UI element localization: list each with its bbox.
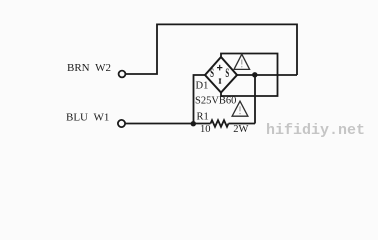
svg-text:10: 10 — [200, 124, 211, 135]
wire bridge left ~ down to node A — [194, 75, 206, 124]
svg-text:BRN W2: BRN W2 — [67, 62, 111, 74]
bridge plus mark — [217, 65, 222, 71]
bridge minus mark — [219, 79, 221, 84]
label BLU W1 — [66, 112, 109, 124]
svg-text:S: S — [225, 67, 229, 81]
wire BLU terminal to node A — [125, 123, 210, 125]
label S25VB60 — [195, 96, 236, 107]
svg-text:2W: 2W — [233, 124, 248, 135]
watermark hifidiy.net — [266, 122, 365, 139]
node junction dot right — [252, 72, 257, 77]
wire BRN terminal to top loop — [126, 24, 297, 75]
svg-text:D1: D1 — [196, 81, 209, 92]
bridge rectifier D1 body — [205, 57, 237, 93]
wire bridge right ~ to outer loop — [237, 74, 297, 76]
warning triangle near R1 — [232, 101, 248, 116]
svg-text:BLU W1: BLU W1 — [66, 112, 109, 124]
label D1 — [196, 81, 209, 92]
label 2W — [233, 124, 248, 135]
svg-text:S: S — [210, 67, 214, 81]
label BRN W2 — [67, 62, 111, 74]
bridge left ac mark — [210, 67, 214, 81]
svg-text:S25VB60: S25VB60 — [195, 96, 236, 107]
bridge right ac mark — [225, 67, 229, 81]
svg-text:R1: R1 — [197, 112, 209, 123]
label 10 — [200, 124, 211, 135]
label R1 — [197, 112, 209, 123]
terminal BLU W1 — [118, 120, 125, 127]
wire junction down to R1 right lead — [254, 75, 256, 124]
svg-text:hifidiy.net: hifidiy.net — [266, 122, 365, 139]
terminal BRN W2 — [119, 71, 126, 78]
node A junction dot — [191, 121, 196, 126]
wire bridge plus to minus shorting loop — [221, 54, 278, 97]
warning triangle near bridge — [234, 54, 250, 69]
resistor R1 zigzag — [211, 120, 229, 127]
wire R1 right lead — [229, 123, 256, 125]
